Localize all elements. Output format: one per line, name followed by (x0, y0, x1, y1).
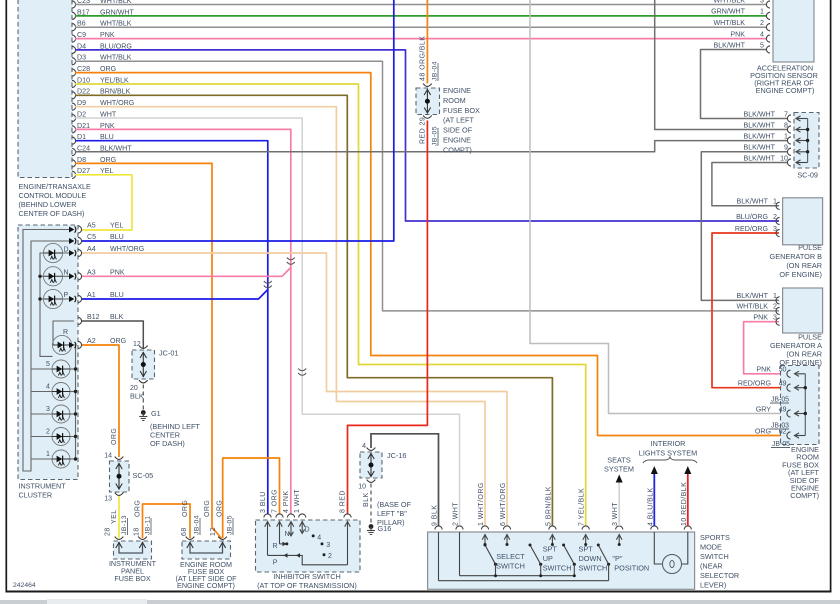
svg-text:4: 4 (362, 443, 366, 450)
svg-text:242464: 242464 (13, 582, 36, 589)
wire D1 BLU: ECM D1 down to splice with A1 and inhibitor pin 3 (75, 141, 268, 514)
sports mode switch internals: select / spt up / spt down / P position switches and lamp (439, 532, 688, 581)
ACCELERATION POSITION SENSOR label (750, 64, 818, 96)
svg-text:SC-09: SC-09 (797, 171, 818, 180)
svg-text:MODE: MODE (700, 543, 722, 552)
svg-text:JC-01: JC-01 (159, 349, 178, 358)
svg-text:B6: B6 (77, 20, 86, 28)
instrument panel fuse box internals (115, 537, 147, 553)
wire ORG: engine room fuse box pin 12 up and over to inhibitor switch pin 7 (223, 458, 280, 538)
wire BLU/BLK: sports mode switch pin 4 to interior lights system (653, 474, 655, 526)
svg-text:PNK: PNK (753, 314, 768, 322)
svg-text:COMPT): COMPT) (443, 145, 472, 154)
svg-text:SC-05: SC-05 (133, 471, 154, 480)
ECM pin D8 (ORG) (72, 156, 116, 167)
right ENGINE ROOM FUSE BOX label (782, 445, 819, 500)
svg-text:4 BLU/BLK: 4 BLU/BLK (647, 487, 654, 526)
right fuse box pin arcs and labels (738, 366, 791, 440)
wire RED/BLK: sports mode switch pin 10 to interior lights system (687, 474, 689, 526)
ECM pin C28 (ORG) (72, 65, 116, 76)
svg-text:SWITCH: SWITCH (700, 552, 729, 561)
INSTRUMENT PANEL FUSE BOX (114, 541, 152, 559)
svg-text:BLK/WHT: BLK/WHT (743, 154, 775, 162)
svg-text:(AT LEFT: (AT LEFT (443, 116, 474, 125)
cluster pin C5 (BLU) (78, 233, 124, 244)
pulse generator B pin 1 (BLK/WHT) (736, 198, 779, 210)
svg-text:A4: A4 (87, 245, 96, 253)
wire A1 BLU: cluster A1 splice into D1 blue (82, 290, 268, 300)
svg-text:2: 2 (760, 19, 764, 27)
accel position sensor pin 2 (WHT/BLK) (713, 19, 770, 31)
indicator lamp P (43, 289, 68, 308)
svg-text:ORG: ORG (110, 337, 126, 345)
accel position sensor pin 4 (PNK) (730, 30, 770, 42)
wire A3 PNK: cluster A3 splice into D21 pink (82, 268, 291, 277)
svg-text:WHT/BLK: WHT/BLK (713, 0, 745, 4)
indicator lamp 4 (31, 383, 77, 401)
svg-text:ORG: ORG (111, 428, 118, 445)
svg-text:PILLAR): PILLAR) (377, 518, 405, 527)
ECM pin C24 (BLK/WHT) (72, 145, 132, 156)
pulse generator A pin 1 (BLK/WHT) (736, 292, 779, 304)
svg-text:2: 2 (46, 429, 50, 436)
svg-text:1: 1 (46, 451, 50, 458)
ENGINE ROOM FUSE BOX right connector (781, 366, 820, 445)
svg-text:SWITCH: SWITCH (579, 564, 608, 573)
svg-text:JB-11: JB-11 (145, 515, 152, 535)
svg-text:JB-05: JB-05 (432, 126, 439, 146)
svg-text:10 RED/BLK: 10 RED/BLK (681, 482, 688, 526)
wire BLK dashed: JC-01 pin 20 to ground G1 (142, 385, 144, 412)
G16 location label (377, 500, 412, 527)
svg-text:BLU: BLU (110, 291, 124, 299)
INHIBITOR SWITCH block (256, 520, 361, 572)
next page edge strip (0, 599, 840, 604)
indicator lamp N (43, 267, 68, 286)
svg-text:BLK/WHT: BLK/WHT (743, 132, 775, 140)
ECM pin D10 (YEL/BLK) (72, 76, 129, 87)
PULSE GENERATOR A block (783, 288, 823, 333)
svg-text:ENGINE/TRANSAXLE: ENGINE/TRANSAXLE (19, 182, 91, 191)
svg-text:49: 49 (779, 380, 787, 388)
wire D10 YEL/BLK: ECM D10 to sports mode switch pin 7 (75, 84, 586, 526)
engine room fuse box bottom internals (186, 537, 227, 553)
svg-text:CENTER OF DASH): CENTER OF DASH) (19, 209, 85, 218)
ground G16 (367, 524, 391, 535)
inhibitor switch pin labels (260, 489, 347, 513)
svg-text:WHT/BLK: WHT/BLK (100, 54, 132, 62)
cluster pin entry arrows (69, 226, 76, 348)
wire D9 WHT/ORG: ECM D9 to sports mode switch pin 1 (75, 107, 485, 526)
splice hop marks on pink wire (287, 258, 295, 265)
svg-text:14: 14 (104, 453, 112, 460)
svg-text:4: 4 (760, 30, 764, 38)
svg-text:1: 1 (760, 8, 764, 16)
svg-text:18: 18 (134, 527, 141, 536)
accel position sensor pin 1 (GRN/WHT) (711, 8, 770, 20)
svg-text:SWITCH: SWITCH (543, 564, 572, 573)
svg-text:SPORTS: SPORTS (700, 533, 730, 542)
svg-text:SEATS: SEATS (607, 456, 631, 465)
sports mode switch internal labels (496, 545, 649, 573)
svg-text:7: 7 (784, 110, 788, 118)
svg-text:3 BLU: 3 BLU (260, 491, 267, 513)
wire C23 WHT/BLK: ECM C23 to accel position sensor pin 3 (75, 4, 767, 6)
inhibitor switch internal contacts (265, 522, 351, 567)
svg-text:SYSTEM: SYSTEM (604, 465, 634, 474)
ENGINE ROOM FUSE BOX bottom connector (182, 541, 231, 559)
svg-text:CONTROL MODULE: CONTROL MODULE (19, 191, 87, 200)
svg-text:PNK: PNK (756, 366, 771, 374)
svg-text:49: 49 (779, 405, 787, 413)
svg-text:BLK: BLK (110, 313, 124, 321)
svg-text:GRY: GRY (756, 405, 772, 413)
wire RED/ORG: pulse generator B pin 3 to engine room fuse box pin 49 (712, 233, 788, 388)
svg-text:6 WHT/ORG: 6 WHT/ORG (500, 482, 507, 526)
svg-text:A2: A2 (87, 337, 96, 345)
SPORTS MODE SWITCH label (700, 533, 739, 590)
wire A4 WHT/ORG: cluster A4 to sports mode switch pin 6 (82, 253, 507, 526)
pulse generator A pin 3 (PNK) (753, 314, 779, 326)
svg-text:INTERIOR: INTERIOR (651, 439, 686, 448)
svg-text:BLK/WHT: BLK/WHT (743, 144, 775, 152)
svg-text:28: 28 (105, 527, 112, 536)
sports mode switch pin arcs (435, 526, 692, 530)
svg-text:3: 3 (760, 0, 764, 4)
svg-text:OF ENGINE): OF ENGINE) (779, 270, 822, 279)
splice hop marks on blue wire (264, 281, 272, 288)
svg-text:COMPT): COMPT) (790, 491, 819, 500)
svg-text:WHT/ORG: WHT/ORG (110, 245, 144, 253)
svg-text:7 YEL/BLK: 7 YEL/BLK (579, 488, 586, 526)
svg-text:BLU/ORG: BLU/ORG (736, 213, 768, 221)
svg-text:9 BLK: 9 BLK (432, 505, 439, 526)
svg-text:68: 68 (181, 527, 188, 536)
ENGINE ROOM FUSE BOX bottom label (175, 560, 237, 590)
svg-text:48 ORG/BLK: 48 ORG/BLK (420, 36, 427, 81)
SC-09 pin arcs and labels (743, 110, 791, 166)
svg-text:JB-04: JB-04 (432, 61, 439, 81)
svg-text:WHT/BLK: WHT/BLK (100, 20, 132, 28)
wire D21 PNK: ECM D21 down to splice with A3 and inhibitor pin 4 (75, 129, 291, 514)
svg-text:LEFT "B": LEFT "B" (377, 509, 407, 518)
svg-text:D2: D2 (77, 110, 86, 118)
svg-text:4: 4 (46, 384, 50, 391)
svg-text:D: D (64, 247, 69, 254)
JC-16 internals (358, 443, 406, 491)
G1 location label (150, 422, 200, 448)
svg-text:YEL: YEL (111, 509, 118, 524)
svg-text:SELECTOR: SELECTOR (700, 571, 739, 580)
svg-text:4 PNK: 4 PNK (283, 491, 290, 513)
pulse generator B pin 3 (RED/ORG) (735, 225, 780, 237)
wire D27 YEL: ECM D27 loop to cluster pin A5 (75, 175, 132, 230)
svg-text:A3: A3 (87, 269, 96, 277)
svg-text:SELECT: SELECT (496, 552, 525, 561)
wire BLK: JC-16 pin 4 up over to sports mode switch pin 9 (371, 434, 439, 526)
wire B6 WHT/BLK: ECM B6 to accel position sensor pin 2 (75, 26, 767, 28)
wire C9 PNK: ECM C9 to accel position sensor pin 4 (75, 38, 767, 40)
svg-text:A5: A5 (87, 222, 96, 230)
cluster pin A3 (PNK) (78, 269, 125, 280)
INSTRUMENT CLUSTER label (19, 482, 67, 500)
connector SC-05 (110, 461, 130, 492)
svg-text:G1: G1 (151, 409, 161, 418)
svg-text:BLK/WHT: BLK/WHT (736, 292, 768, 300)
wire D4 BLU/ORG: ECM D4 to pulse generator B pin 2 (75, 50, 779, 221)
wire BLK/WHT: SC-09 pin 9 to pulse generator A pin 1 (701, 152, 788, 301)
cluster pin A4 (WHT/ORG) (78, 245, 144, 256)
right fuse box JB labels (770, 397, 790, 449)
svg-text:CLUSTER: CLUSTER (19, 491, 53, 500)
ECM connector block (ENGINE/TRANSAXLE CONTROL MODULE) (18, 0, 72, 178)
svg-text:WHT/BLK: WHT/BLK (713, 19, 745, 27)
svg-text:2: 2 (773, 213, 777, 221)
svg-text:INSTRUMENT: INSTRUMENT (19, 482, 67, 491)
wire C28 ORG: ECM C28 to engine room fuse box pin 62 (75, 73, 788, 436)
svg-text:3: 3 (773, 314, 777, 322)
wire YEL: SC-05 pin 13 to instrument panel fuse box pin 28 (118, 496, 120, 538)
svg-text:DOWN: DOWN (579, 554, 602, 563)
svg-text:ENGINE: ENGINE (443, 136, 471, 145)
pulse generator A pin 2 (WHT/BLK) (736, 303, 779, 315)
sports mode switch lamp (663, 555, 682, 574)
svg-text:10: 10 (780, 154, 788, 162)
wire BLK/WHT: accel sensor pin 5 to SC-09 pin 7 (701, 50, 789, 119)
svg-text:JB-03: JB-03 (771, 423, 789, 430)
svg-text:ORG: ORG (217, 500, 224, 517)
svg-text:SIDE OF: SIDE OF (443, 126, 473, 135)
svg-text:1 WHT/ORG: 1 WHT/ORG (478, 482, 485, 526)
svg-text:UP: UP (543, 554, 553, 563)
cluster pin B12 (BLK) (78, 313, 124, 324)
svg-text:WHT: WHT (100, 110, 117, 118)
instrument cluster block (INSTRUMENT CLUSTER) (18, 225, 78, 480)
instrument panel fuse box pin labels (105, 500, 152, 536)
indicator lamp 3 (31, 405, 77, 423)
indicator lamp 5 (31, 360, 77, 378)
svg-text:3 WHT: 3 WHT (612, 502, 619, 526)
svg-text:1 WHT: 1 WHT (294, 489, 301, 513)
svg-text:ROOM: ROOM (443, 96, 466, 105)
PULSE GENERATOR B label (770, 243, 823, 279)
engine room fuse box bottom pin labels (181, 500, 234, 536)
wire D22 BRN/BLK: ECM D22 to sports mode switch pin 5 (75, 95, 552, 526)
svg-text:JB-13: JB-13 (121, 515, 128, 535)
JB-04 ENGINE ROOM FUSE BOX label (443, 86, 480, 154)
svg-text:B12: B12 (87, 313, 100, 321)
svg-text:1: 1 (773, 198, 777, 206)
svg-text:3: 3 (46, 406, 50, 413)
svg-text:50: 50 (779, 366, 787, 374)
indicator lamp 2 (31, 428, 77, 446)
SPORTS MODE SWITCH block (428, 532, 695, 589)
svg-text:BLK/WHT: BLK/WHT (713, 41, 745, 49)
svg-text:"P": "P" (612, 554, 622, 563)
ECM pin B17 (GRN/WHT) (72, 8, 135, 19)
svg-text:ORG: ORG (182, 500, 189, 517)
svg-text:4: 4 (317, 535, 321, 542)
ECM pin D9 (WHT/ORG) (72, 99, 134, 110)
PULSE GENERATOR A label (770, 333, 822, 368)
svg-text:RED 29: RED 29 (420, 117, 427, 144)
svg-text:D: D (305, 527, 310, 534)
svg-text:JB-04: JB-04 (194, 515, 201, 535)
svg-text:ENGINE COMPT): ENGINE COMPT) (177, 581, 235, 590)
wire ORG/BLK: off-page top down to JB-04 engine room fuse box pin 48 (426, 0, 428, 84)
svg-text:1: 1 (784, 132, 788, 140)
ECM pin D22 (BRN/BLK) (72, 88, 131, 99)
svg-text:GENERATOR B: GENERATOR B (770, 252, 823, 261)
svg-text:2: 2 (328, 553, 332, 560)
svg-text:P: P (273, 560, 278, 567)
svg-text:POSITION: POSITION (614, 564, 649, 573)
svg-text:(AT TOP OF TRANSMISSION): (AT TOP OF TRANSMISSION) (257, 581, 357, 590)
indicator lamp 1 (31, 450, 77, 468)
wire WHT: sports mode switch pin 3 to seats system (618, 483, 620, 527)
svg-text:3: 3 (773, 225, 777, 233)
wire A2 ORG: cluster A2 to SC-05 pin 14 (82, 345, 119, 457)
wire D3 WHT/BLK: ECM D3 to pulse generator A pin 2 (75, 61, 779, 311)
connector SC-09 (794, 113, 819, 169)
svg-text:BLK/WHT: BLK/WHT (736, 198, 768, 206)
svg-text:FUSE BOX: FUSE BOX (443, 106, 480, 115)
svg-text:BLK/WHT: BLK/WHT (743, 110, 775, 118)
accel position sensor pin 3 (WHT/BLK) (713, 0, 770, 8)
wire D2 WHT: ECM D2 to sports mode switch pin 2 (75, 118, 460, 526)
ECM pin C23 (WHT/BLK) (72, 0, 132, 8)
svg-text:5: 5 (760, 41, 764, 49)
svg-text:BLK: BLK (130, 392, 144, 401)
accel position sensor pin 5 (BLK/WHT) (713, 41, 770, 53)
ECM pin D21 (PNK) (72, 122, 115, 133)
wire BLK/WHT: SC-09 pin 10 to pulse generator B pin 1 (712, 163, 788, 206)
svg-text:ENGINE COMPT): ENGINE COMPT) (756, 86, 815, 95)
connector JC-01 (132, 350, 155, 379)
svg-text:5 BRN/BLK: 5 BRN/BLK (545, 486, 552, 526)
wire BLK/WHT: off-page top down to SC-09 pin 8 (655, 0, 788, 130)
svg-text:12: 12 (210, 527, 217, 536)
svg-text:INHIBITOR SWITCH: INHIBITOR SWITCH (273, 572, 341, 581)
off-page arrows to INTERIOR LIGHTS SYSTEM (639, 439, 697, 474)
svg-text:BLK: BLK (363, 492, 370, 507)
svg-text:GRN/WHT: GRN/WHT (711, 8, 746, 16)
INHIBITOR SWITCH label (257, 572, 357, 590)
sports mode switch pin labels (432, 482, 688, 526)
wire PNK: pulse generator A pin 3 to engine room fuse box pin 50 (744, 322, 788, 374)
right fuse box internal bus (795, 371, 808, 438)
ground G1 (139, 409, 160, 421)
svg-text:D3: D3 (77, 54, 86, 62)
wire ORG: instrument panel fuse box pin 18 to engine room fuse box pin 68 (143, 504, 191, 538)
ACCELERATION POSITION SENSOR block (773, 0, 814, 62)
svg-text:12: 12 (133, 341, 141, 348)
ECM pin D3 (WHT/BLK) (72, 54, 132, 65)
svg-text:A1: A1 (87, 291, 96, 299)
svg-text:13: 13 (104, 496, 112, 503)
svg-text:JB-05: JB-05 (771, 397, 789, 404)
PULSE GENERATOR B block (783, 198, 823, 245)
svg-text:8 RED: 8 RED (340, 490, 347, 513)
indicator lamp R (52, 329, 71, 355)
SC-05 internals (104, 453, 153, 503)
svg-text:N: N (284, 531, 289, 538)
JC-01 internals (130, 341, 178, 401)
svg-text:SWITCH: SWITCH (496, 562, 525, 571)
svg-text:R: R (272, 543, 277, 550)
inhibitor switch pin arcs (264, 514, 351, 518)
svg-text:(NEAR: (NEAR (700, 562, 723, 571)
JB-04 internals (423, 84, 432, 119)
svg-text:9: 9 (784, 144, 788, 152)
svg-text:PNK: PNK (730, 30, 745, 38)
cluster pin A5 (YEL) (78, 222, 123, 233)
svg-text:RED/ORG: RED/ORG (735, 225, 768, 233)
wire GRY: off-page top down to engine room fuse box pin 49 (530, 0, 788, 414)
svg-text:2: 2 (773, 303, 777, 311)
svg-text:10: 10 (358, 484, 366, 491)
svg-text:3: 3 (326, 542, 330, 549)
svg-text:R: R (63, 329, 68, 336)
wire B12 BLK: cluster B12 to JC-01 (82, 321, 143, 348)
wire D8 ORG: ECM D8 to engine room fuse box pin 12 (75, 163, 222, 538)
svg-text:N: N (64, 270, 69, 277)
svg-text:RED/ORG: RED/ORG (738, 380, 771, 388)
wire C5 BLU: cluster C5 up off-page (82, 0, 394, 241)
svg-text:SPT: SPT (543, 545, 558, 554)
svg-text:(BEHIND LOWER: (BEHIND LOWER (19, 200, 77, 209)
svg-text:BLK/WHT: BLK/WHT (743, 121, 775, 129)
svg-text:ORG: ORG (755, 427, 771, 435)
ECM pin D1 (BLU) (72, 133, 114, 144)
svg-text:C5: C5 (87, 233, 96, 241)
connector JC-16 (360, 452, 382, 478)
hop marks on white wire (298, 369, 306, 376)
ECM pin D4 (BLU/ORG) (72, 42, 132, 53)
indicator lamp D (43, 243, 68, 262)
svg-text:ORG: ORG (204, 500, 211, 517)
svg-text:2 WHT: 2 WHT (453, 502, 460, 526)
svg-text:SPT: SPT (579, 545, 594, 554)
cluster pin A2 (ORG) (78, 337, 126, 348)
svg-text:FUSE BOX: FUSE BOX (114, 574, 151, 583)
svg-text:7 ORG: 7 ORG (272, 489, 279, 513)
svg-text:WHT/BLK: WHT/BLK (736, 303, 768, 311)
svg-text:1: 1 (773, 292, 777, 300)
ECM pin B6 (WHT/BLK) (72, 20, 132, 31)
svg-text:8: 8 (784, 121, 788, 129)
wire C24 BLK/WHT: ECM C24 to SC-09 pin 1 (75, 141, 788, 152)
svg-text:LEVER): LEVER) (700, 581, 726, 590)
svg-text:ORG: ORG (135, 500, 142, 517)
pulse generator B pin 2 (BLU/ORG) (736, 213, 780, 225)
wire B17 GRN/WHT: ECM B17 to accel position sensor pin 1 (75, 15, 767, 17)
svg-text:YEL: YEL (110, 222, 123, 230)
off-page arrow to SEATS SYSTEM (604, 456, 634, 483)
cluster pin A1 (BLU) (78, 291, 124, 302)
svg-text:OF DASH): OF DASH) (150, 439, 185, 448)
svg-text:JC-16: JC-16 (387, 451, 406, 460)
svg-text:LIGHTS SYSTEM: LIGHTS SYSTEM (639, 449, 697, 458)
wire RED: JB-04 pin 29 down to inhibitor switch pin 8 (348, 121, 428, 515)
svg-text:PNK: PNK (110, 269, 125, 277)
svg-text:JB-05: JB-05 (227, 515, 234, 535)
svg-text:P: P (64, 292, 69, 299)
JB-04 pin labels (420, 36, 439, 146)
ECM pin D27 (YEL) (72, 167, 113, 178)
ECM pin D2 (WHT) (72, 110, 117, 121)
svg-text:JB-05: JB-05 (772, 441, 790, 448)
